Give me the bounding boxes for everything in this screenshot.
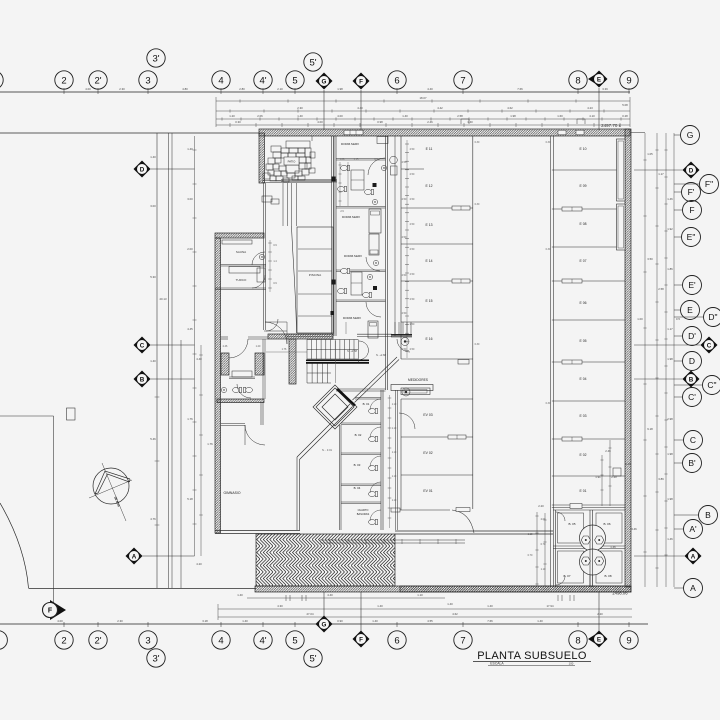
stall divider right 7 — [552, 400, 625, 402]
svg-text:E 15: E 15 — [426, 299, 433, 303]
svg-text:4.42: 4.42 — [437, 106, 443, 110]
door arc gym storage — [245, 425, 265, 445]
svg-text:1.05: 1.05 — [647, 152, 653, 156]
svg-text:2.50: 2.50 — [402, 274, 407, 277]
bath block right wall — [385, 136, 387, 390]
grid bubble 9 top — [620, 71, 638, 89]
bed 4 — [368, 321, 378, 338]
water heater corridor — [390, 156, 398, 164]
svg-text:C: C — [140, 342, 145, 349]
shower 1 — [351, 170, 364, 190]
svg-text:4.20: 4.20 — [196, 562, 202, 566]
property line top-left — [0, 132, 259, 134]
right dimension verticals — [644, 133, 646, 587]
row bubble A right — [684, 579, 703, 598]
ticks dim4 — [230, 123, 620, 127]
corridor verticals — [282, 183, 284, 226]
row bubble C" right — [703, 376, 720, 395]
ticks dim2 — [230, 109, 604, 112]
toilet 1a — [341, 165, 350, 170]
row bubble B' right — [683, 454, 702, 473]
curb line left — [0, 415, 54, 417]
svg-text:5.30: 5.30 — [150, 275, 156, 279]
section line E bottom — [598, 592, 600, 631]
drain brackets top dim — [461, 119, 469, 124]
row bubble B right — [699, 506, 718, 525]
svg-text:2497.70 x: 2497.70 x — [601, 123, 622, 128]
section marker F top — [353, 73, 370, 90]
wall gym storage north — [217, 399, 264, 403]
b-rooms left wall lower — [339, 425, 341, 530]
svg-text:4.00: 4.00 — [317, 120, 323, 124]
row bubble D right — [683, 352, 702, 371]
grid bubble 3 top — [139, 71, 157, 89]
window gap top wall — [344, 130, 363, 135]
svg-text:4.62: 4.62 — [452, 612, 458, 616]
section marker A left — [126, 548, 143, 565]
svg-text:2.20: 2.20 — [611, 475, 617, 479]
grid bubble 2 bottom — [55, 631, 73, 649]
stall divider center 1 — [401, 168, 424, 170]
svg-text:E": E" — [687, 232, 696, 242]
svg-text:G: G — [322, 621, 327, 628]
svg-text:A': A' — [689, 524, 697, 534]
door arc b-room — [370, 427, 381, 438]
driveway arc — [0, 503, 29, 588]
svg-text:E 06: E 06 — [580, 301, 587, 305]
svg-text:4.40: 4.40 — [357, 106, 363, 110]
svg-text:1.10: 1.10 — [528, 533, 533, 536]
ramp corridor diagonals — [353, 357, 398, 400]
svg-text:1.10: 1.10 — [392, 404, 397, 406]
section marker B left — [134, 371, 151, 388]
grid bubble 2' top — [89, 71, 107, 89]
grid bubble 2 top — [55, 71, 73, 89]
turning radius symbol — [89, 463, 132, 521]
svg-text:ESCALA: ESCALA — [490, 662, 504, 666]
svg-text:1.40: 1.40 — [297, 114, 303, 118]
svg-text:PLANTA SUBSUELO: PLANTA SUBSUELO — [477, 650, 587, 662]
wc pier west — [221, 353, 229, 375]
door arc dorm3 — [366, 257, 380, 271]
svg-text:5': 5' — [309, 57, 316, 68]
wall sauna top — [215, 233, 264, 238]
toilet b-room y494 — [369, 491, 378, 496]
svg-text:8: 8 — [575, 635, 580, 646]
grid bubble 4' top — [254, 71, 272, 89]
svg-text:1.40: 1.40 — [372, 619, 378, 623]
parking column E11-E16 left edge — [400, 136, 402, 359]
svg-text:6: 6 — [394, 635, 399, 646]
svg-text:C: C — [690, 435, 696, 445]
svg-text:9: 9 — [626, 635, 631, 646]
svg-text:E: E — [597, 76, 601, 83]
svg-text:6: 6 — [394, 75, 399, 86]
duct black 5 — [331, 311, 335, 315]
svg-text:B. 07: B. 07 — [563, 574, 570, 578]
row bubble C' right — [683, 388, 702, 407]
bath block left wall — [333, 136, 335, 336]
svg-text:E 14: E 14 — [426, 259, 433, 263]
svg-text:3.39: 3.39 — [602, 87, 608, 91]
section marker D right — [683, 162, 700, 179]
stall divider right 5 — [552, 319, 625, 321]
svg-text:SAUNA: SAUNA — [236, 250, 246, 254]
svg-text:3.18: 3.18 — [202, 619, 208, 623]
toilet b-room y439 — [369, 436, 378, 441]
svg-text:0.28: 0.28 — [622, 114, 628, 118]
wc pier east — [255, 353, 264, 375]
door arc hall 1 — [265, 322, 287, 344]
svg-text:1.17: 1.17 — [667, 327, 673, 331]
svg-text:5: 5 — [292, 75, 297, 86]
pool left curved wall — [292, 226, 297, 333]
svg-text:2': 2' — [94, 75, 101, 86]
svg-text:CUARTO: CUARTO — [358, 508, 369, 512]
svg-text:E 16: E 16 — [426, 337, 433, 341]
svg-text:18.07: 18.07 — [420, 96, 427, 100]
svg-text:0.30: 0.30 — [235, 120, 241, 124]
svg-text:E 13: E 13 — [426, 223, 433, 227]
svg-text:EV 01: EV 01 — [423, 489, 432, 493]
svg-text:7: 7 — [460, 75, 465, 86]
marker F left — [53, 416, 55, 603]
svg-text:0.30: 0.30 — [475, 343, 480, 346]
svg-text:1.17: 1.17 — [658, 172, 664, 176]
svg-text:1.40: 1.40 — [377, 604, 383, 608]
svg-text:2.50: 2.50 — [410, 173, 415, 176]
svg-text:B': B' — [688, 458, 696, 468]
svg-text:7.66: 7.66 — [517, 87, 523, 91]
row bubble F right — [683, 201, 702, 220]
svg-text:0.30: 0.30 — [475, 141, 480, 144]
grid bubble 3' bottom — [147, 649, 165, 667]
grid bubble 5' top — [304, 53, 322, 71]
wall right exterior — [625, 129, 631, 587]
toilet b-room y411 — [369, 408, 378, 413]
svg-text:B: B — [689, 376, 694, 383]
stall divider right 3 — [552, 246, 625, 248]
svg-text:2.50: 2.50 — [410, 223, 415, 226]
section marker F bottom — [353, 631, 370, 648]
svg-text:2.50: 2.50 — [402, 198, 407, 201]
sink 1a — [381, 165, 386, 170]
wall top exterior — [259, 129, 630, 136]
corridor dim ticks — [269, 240, 271, 292]
ticks dim1 — [240, 99, 576, 102]
row bubble D" right — [704, 308, 720, 327]
svg-text:1.98: 1.98 — [337, 87, 343, 91]
svg-text:1.98: 1.98 — [667, 357, 673, 361]
pool bottom wall — [287, 333, 333, 335]
door arc dorm1 — [368, 158, 385, 175]
grid bubble 6 top — [388, 71, 406, 89]
svg-text:B. 01: B. 01 — [363, 402, 370, 406]
svg-text:2.00: 2.00 — [187, 247, 193, 251]
svg-text:1.15: 1.15 — [354, 158, 359, 161]
svg-text:1.40: 1.40 — [447, 602, 453, 606]
svg-text:0.30: 0.30 — [546, 141, 551, 144]
EV block left edge — [400, 399, 402, 510]
svg-text:2.58: 2.58 — [658, 287, 664, 291]
svg-text:B. 06: B. 06 — [603, 522, 610, 526]
door arc b-room — [370, 482, 381, 493]
toilet 2c — [363, 292, 372, 297]
row bubble E' right — [683, 276, 702, 295]
svg-text:E 04: E 04 — [580, 377, 587, 381]
section line G top — [323, 90, 325, 130]
right ticks 2 — [655, 150, 658, 568]
svg-text:3.00: 3.00 — [150, 204, 156, 208]
row bubble F' right — [682, 183, 701, 202]
wc toilet 2 — [243, 387, 252, 392]
stall divider right 1 — [552, 169, 625, 171]
toilet 2a — [341, 268, 350, 273]
svg-text:2.20: 2.20 — [538, 504, 544, 508]
svg-text:5.08: 5.08 — [622, 103, 628, 107]
svg-text:4.30: 4.30 — [277, 604, 283, 608]
svg-text:3: 3 — [145, 75, 150, 86]
svg-text:2.80: 2.80 — [239, 87, 245, 91]
bath dim ticks — [339, 162, 341, 206]
corridor wall b-rooms/stalls — [395, 390, 397, 530]
svg-text:1.40: 1.40 — [487, 604, 493, 608]
svg-text:1.46: 1.46 — [667, 537, 673, 541]
svg-text:2.46: 2.46 — [427, 120, 433, 124]
svg-text:G: G — [687, 130, 694, 140]
svg-text:8: 8 — [575, 75, 580, 86]
svg-text:2.00: 2.00 — [541, 518, 546, 521]
svg-text:2.50: 2.50 — [402, 312, 407, 315]
grid bubble 7 top — [454, 71, 472, 89]
b-rooms right wall — [380, 390, 382, 530]
grid bubble 4 top — [212, 71, 230, 89]
svg-text:0.5: 0.5 — [676, 317, 680, 321]
section marker C left — [134, 337, 151, 354]
floor drains lobby — [401, 338, 409, 346]
svg-text:2.30: 2.30 — [297, 106, 303, 110]
bed 2 — [369, 209, 381, 233]
section marker G top — [316, 73, 333, 90]
shower 2 — [351, 272, 362, 295]
top dimension lines — [216, 100, 630, 102]
stall divider EV 1 — [401, 436, 473, 438]
door arc b-room — [370, 456, 381, 467]
svg-text:DORM.SERV: DORM.SERV — [343, 316, 361, 320]
svg-text:4.40: 4.40 — [327, 593, 333, 597]
turco shower — [257, 268, 265, 282]
toilet 1b — [338, 186, 347, 191]
svg-text:5: 5 — [292, 635, 297, 646]
svg-text:0.30: 0.30 — [546, 248, 551, 251]
svg-text:2.46: 2.46 — [223, 345, 228, 348]
svg-text:GIMNASIO: GIMNASIO — [224, 491, 241, 495]
grid bubble 4 bottom — [212, 631, 230, 649]
stall divider center bottom — [401, 358, 473, 360]
svg-text:C: C — [707, 342, 712, 349]
EV aisle bottom edge — [392, 509, 450, 511]
wall bottom exterior west segment — [255, 586, 631, 592]
duct black 2 — [373, 183, 377, 187]
right ticks 1 — [643, 160, 646, 552]
svg-text:3': 3' — [152, 53, 159, 64]
pool right wall — [331, 136, 333, 334]
svg-text:9.18: 9.18 — [647, 427, 653, 431]
toilet b-room y468 — [369, 465, 378, 470]
sidewalk line bottom-left — [29, 588, 257, 590]
svg-text:4.23: 4.23 — [587, 106, 593, 110]
svg-text:7.66: 7.66 — [487, 619, 493, 623]
svg-text:3.00: 3.00 — [187, 197, 193, 201]
grid bubble 8 bottom — [569, 631, 587, 649]
row bubble G right — [681, 126, 700, 145]
right ticks 3 — [664, 150, 667, 555]
svg-text:A: A — [690, 583, 696, 593]
svg-text:2: 2 — [61, 635, 66, 646]
svg-text:5.46: 5.46 — [150, 437, 156, 441]
svg-text:1.10: 1.10 — [392, 500, 397, 502]
svg-text:0.90: 0.90 — [337, 619, 343, 623]
svg-text:2.50: 2.50 — [410, 198, 415, 201]
meter cabinet lower — [401, 388, 430, 395]
svg-text:3: 3 — [145, 635, 150, 646]
svg-text:E 12: E 12 — [426, 184, 433, 188]
svg-text:2.50: 2.50 — [410, 148, 415, 151]
ticks dim3 — [222, 117, 621, 120]
svg-text:1.06: 1.06 — [340, 158, 345, 161]
svg-text:A: A — [132, 553, 137, 560]
svg-text:1.00: 1.00 — [637, 317, 643, 321]
door arc stair — [359, 341, 369, 351]
section marker G bottom — [316, 616, 333, 633]
sink 2b — [367, 274, 372, 279]
svg-text:4.45: 4.45 — [187, 327, 193, 331]
svg-text:F': F' — [688, 187, 695, 197]
svg-text:1.10: 1.10 — [392, 452, 397, 454]
top grid line — [0, 91, 630, 93]
svg-text:0.30: 0.30 — [546, 402, 551, 405]
svg-text:4: 4 — [218, 75, 223, 86]
wheel stops right column — [562, 207, 582, 211]
grid bubble 5 bottom — [286, 631, 304, 649]
section marker C right — [701, 337, 718, 354]
svg-text:1.10: 1.10 — [417, 593, 423, 597]
wc north wall — [221, 336, 228, 338]
stall divider EV 2 — [401, 474, 473, 476]
wall left upper — [259, 133, 265, 183]
svg-text:4.00: 4.00 — [337, 114, 343, 118]
storage block walls — [555, 510, 557, 587]
svg-text:D: D — [689, 167, 694, 174]
svg-text:F: F — [689, 205, 694, 215]
bottom dimension lines — [247, 597, 445, 599]
svg-text:17.94: 17.94 — [547, 604, 554, 608]
svg-text:E 11: E 11 — [426, 147, 433, 151]
svg-text:E: E — [687, 305, 693, 315]
patio rubble — [286, 141, 310, 148]
stair lower run treads — [307, 364, 327, 384]
column right wall — [613, 468, 621, 476]
stair dim line — [266, 351, 307, 353]
duct black 4 — [373, 286, 377, 290]
svg-text:N. +2.88: N. +2.88 — [347, 349, 357, 353]
row bubble C right — [684, 431, 703, 450]
door arc turco — [252, 275, 265, 288]
turco bench — [229, 267, 260, 274]
grid bubble 5 top — [286, 71, 304, 89]
svg-text:1.20: 1.20 — [256, 345, 261, 348]
svg-text:1.10: 1.10 — [392, 428, 397, 430]
section line E top — [598, 88, 600, 130]
row bubble E right — [681, 301, 700, 320]
grid bubble 2' bottom — [89, 631, 107, 649]
svg-text:1.76: 1.76 — [282, 348, 287, 351]
stall divider center 5 — [401, 321, 473, 323]
svg-text:1.98: 1.98 — [510, 114, 516, 118]
svg-text:2.50: 2.50 — [402, 161, 407, 164]
door arc wc — [237, 384, 251, 398]
small box left — [67, 408, 76, 420]
svg-text:2.06: 2.06 — [257, 114, 263, 118]
parking aisle edge line center — [472, 136, 474, 509]
svg-text:9: 9 — [626, 75, 631, 86]
cistern circles — [580, 525, 606, 551]
svg-text:1.76: 1.76 — [207, 442, 213, 446]
svg-text:4': 4' — [259, 75, 266, 86]
duct black 3 — [332, 280, 336, 285]
svg-text:1.91: 1.91 — [595, 475, 601, 479]
dim tick column center — [406, 140, 408, 358]
svg-text:2.46: 2.46 — [605, 449, 611, 453]
toilet 1c — [365, 189, 374, 194]
svg-text:3.46: 3.46 — [631, 527, 637, 531]
wheel stops center column — [452, 206, 470, 210]
svg-text:4.40: 4.40 — [427, 87, 433, 91]
wall bottom exterior east segment — [400, 586, 631, 592]
svg-text:4.76: 4.76 — [150, 517, 156, 521]
beam over corridor — [281, 179, 337, 183]
storage room inner outlines — [558, 513, 584, 543]
svg-text:E: E — [597, 636, 601, 643]
aisle corner arc — [452, 510, 474, 533]
svg-text:A: A — [691, 553, 696, 560]
svg-text:PATIO: PATIO — [288, 160, 296, 164]
stair direction line — [335, 341, 337, 383]
section marker E bottom — [591, 631, 608, 648]
svg-text:F: F — [48, 608, 53, 615]
grid bubble 5' bottom — [304, 649, 322, 667]
svg-text:B: B — [140, 376, 145, 383]
row bubble F" right — [700, 175, 719, 194]
corridor top wall — [262, 180, 332, 182]
sauna bench — [222, 240, 252, 244]
svg-text:4: 4 — [218, 635, 223, 646]
svg-text:4.00: 4.00 — [57, 619, 63, 623]
joint top wall 2 — [576, 130, 584, 135]
svg-text:100: 100 — [569, 662, 574, 666]
svg-text:0.70: 0.70 — [528, 554, 533, 557]
sauna room — [263, 238, 265, 330]
svg-text:2.58: 2.58 — [457, 114, 463, 118]
svg-text:D': D' — [688, 331, 696, 341]
ramp guide lines — [320, 539, 465, 541]
svg-text:1.76: 1.76 — [187, 417, 193, 421]
section line G bottom — [323, 592, 325, 617]
lobby steps — [395, 322, 411, 334]
svg-text:3.89: 3.89 — [658, 477, 664, 481]
elevator door dark — [337, 389, 355, 406]
storage dim line — [536, 512, 538, 586]
